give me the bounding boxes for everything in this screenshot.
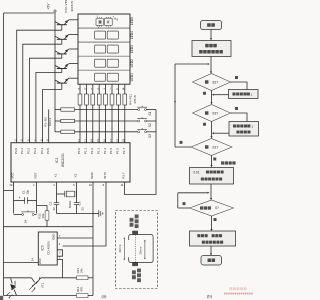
svg-text:10μ: 10μ (26, 190, 30, 195)
phototransistor VT1 (29, 277, 44, 292)
wire VCC feed pin14 (4, 258, 39, 263)
pin 2 P3.0 (14, 139, 18, 154)
resistor R8 (104, 94, 108, 105)
svg-text:S2: S2 (148, 123, 152, 127)
svg-text:P1.0: P1.0 (77, 148, 81, 155)
svg-text:22: 22 (81, 207, 85, 211)
IC U3 CD40106 body (38, 232, 57, 265)
flow yes label 2 (235, 107, 238, 110)
infrared diode VD1 (6, 278, 17, 299)
svg-text:15: 15 (96, 139, 100, 142)
svg-text:20mm: 20mm (139, 246, 143, 254)
svg-text:VCC: VCC (38, 258, 42, 264)
svg-text:P3.1: P3.1 (20, 148, 24, 155)
resistor R9 (110, 94, 114, 105)
7-segment digit pair LED5 (96, 15, 119, 29)
transistor VT6 9015 (55, 78, 78, 89)
wire X2 pin5 (76, 182, 78, 203)
flow arrow 1 (210, 30, 212, 41)
flow start measure label (221, 161, 224, 164)
resistor R2 (55, 119, 138, 122)
resistor R13 24k (76, 268, 93, 280)
flow yes label 4 (214, 218, 217, 221)
resistor R10 (117, 94, 121, 105)
flow arrow 3 (210, 91, 212, 105)
svg-text:X2: X2 (74, 173, 78, 177)
label IC3 CD40106 (41, 241, 51, 255)
transistor VT3 9015 (55, 34, 78, 44)
capacitor C3 22 (74, 201, 85, 213)
flow arrow 2 (210, 57, 212, 74)
flow timer enable box (190, 168, 234, 185)
svg-text:11: 11 (120, 183, 123, 187)
svg-text:22: 22 (52, 207, 56, 211)
wire R6 to P1.2 (92, 105, 94, 143)
capacitor C2 22 (49, 201, 60, 213)
svg-text:1: 1 (251, 92, 253, 96)
svg-text:18: 18 (115, 139, 119, 142)
pin 19 P1.7 (122, 139, 126, 154)
svg-text:IC1: IC1 (55, 157, 59, 162)
capacitor C1 10u (14, 190, 37, 204)
pin 8 P3.4 (40, 139, 44, 154)
wire R5 to P1.1 (85, 105, 87, 143)
flow zero loop join (178, 192, 210, 194)
pin 16 P1.4 (103, 139, 107, 154)
svg-text:GND: GND (52, 234, 56, 240)
wire segment c (92, 84, 94, 94)
flow no label 4 (183, 202, 186, 205)
svg-text:24k: 24k (80, 268, 84, 273)
flow arrow 4 (210, 122, 212, 139)
svg-text:P3.7: P3.7 (122, 172, 126, 179)
flow no label 2 (203, 123, 206, 126)
svg-text:P1.5: P1.5 (109, 148, 113, 155)
wire digit drive P3.2 to VT4 base (30, 58, 62, 143)
wire R10 to P1.6 (117, 105, 119, 143)
svg-text:INT0: INT0 (103, 172, 107, 179)
pin 4 X1 (53, 173, 58, 187)
label VT2~VT6 9015x5 (64, 0, 74, 13)
resistor R7 (97, 94, 101, 105)
svg-text:LED2: LED2 (130, 59, 134, 67)
svg-text:(b): (b) (207, 293, 213, 298)
svg-text:c: c (108, 27, 109, 29)
flow loop join top (175, 63, 210, 65)
switch S2 (137, 117, 156, 122)
wire digit drive P3.0 to VT2 base (17, 30, 62, 143)
7-segment digit pair LED1 (95, 73, 119, 81)
pin 6 P3.2 (26, 139, 30, 154)
svg-text:C2: C2 (49, 201, 53, 205)
transistor VT5 9015 (55, 64, 78, 73)
switch S3 (137, 128, 156, 133)
dimension 20mm (139, 240, 146, 260)
svg-text:LED4: LED4 (130, 31, 134, 39)
wire R7 to P1.3 (98, 105, 100, 143)
dimension 30mm (118, 237, 125, 260)
pin 18 P1.6 (115, 139, 119, 154)
resistor R14 470 (4, 278, 94, 298)
pin 7 P3.3 (33, 139, 37, 154)
wire INT0 pin6 to IC3 (63, 182, 107, 246)
svg-text:P1.7: P1.7 (122, 148, 126, 155)
transistor VT2 9015 (55, 20, 78, 30)
svg-text:LED5: LED5 (130, 17, 134, 25)
pin 17 P1.5 (109, 139, 113, 154)
svg-text:GND: GND (90, 171, 94, 179)
svg-text:20: 20 (9, 183, 13, 187)
transistor VT4 9015 (55, 49, 78, 58)
pin 1 RST (33, 172, 38, 187)
flow arrow 5 (210, 156, 212, 168)
label R1~R3 10kx3 (44, 117, 53, 127)
emitter element (132, 263, 138, 267)
svg-text:S2?: S2? (212, 80, 218, 84)
svg-text:470: 470 (80, 287, 84, 292)
svg-text:30mm: 30mm (118, 244, 122, 252)
svg-text:S3: S3 (148, 134, 152, 138)
flow branch plus box (229, 113, 259, 136)
wire pin7 to ground (57, 234, 93, 238)
wire +5V left vertical (3, 13, 5, 278)
svg-text:R1~R3: R1~R3 (44, 117, 48, 127)
wire ground rail lower (4, 226, 94, 228)
flow plus join (212, 132, 229, 134)
svg-text:X1: X1 (54, 173, 58, 177)
wire segment a (79, 84, 81, 94)
wire segment b (85, 84, 87, 94)
svg-text:16: 16 (103, 139, 107, 142)
svg-text:P3.5: P3.5 (46, 148, 50, 155)
wire phototransistor supply (4, 277, 77, 279)
wire switch common to P3.7 (125, 110, 157, 195)
svg-text:C3: C3 (77, 201, 81, 205)
wire R11 to P1.7 (124, 105, 126, 143)
flow start terminal (201, 21, 222, 30)
svg-text:89C2051: 89C2051 (61, 153, 65, 167)
svg-text:12: 12 (77, 139, 81, 142)
svg-text:P1.4: P1.4 (103, 148, 107, 155)
pin 11 P3.7 (120, 172, 125, 187)
flow yes label 1 (235, 76, 238, 79)
svg-text:0?: 0? (215, 206, 219, 210)
svg-text:IC3: IC3 (41, 245, 45, 250)
flow no loop left (174, 64, 191, 147)
svg-text:VT2~VT6: VT2~VT6 (64, 0, 68, 13)
svg-text:S4: S4 (24, 219, 28, 223)
wire R4 to P1.0 (79, 105, 81, 143)
flow end terminal (201, 256, 222, 266)
svg-text:LED3: LED3 (130, 45, 134, 53)
IC U1 89C2051 body (11, 143, 130, 182)
wire R9 to P1.5 (111, 105, 113, 143)
resistor R3 (55, 130, 138, 133)
pin 10 GND (89, 171, 94, 187)
svg-text:S1?: S1? (212, 145, 218, 149)
wire GND pin10 (92, 182, 93, 296)
wire segment g (117, 84, 119, 94)
sensor center line (134, 235, 136, 262)
svg-text:470×8: 470×8 (133, 95, 137, 104)
svg-text:13: 13 (83, 139, 87, 142)
svg-text:P1.6: P1.6 (116, 148, 120, 155)
flow decision S2 (193, 74, 231, 91)
wire segment dp (124, 84, 126, 94)
wire segment e (105, 84, 107, 94)
resistor R4 (78, 94, 82, 105)
svg-text:14: 14 (90, 139, 94, 142)
pin 15 P1.3 (96, 139, 100, 154)
switch S1 (137, 106, 156, 111)
wire X1 pin4 (56, 182, 58, 203)
7-segment digit pair LED2 (95, 59, 119, 67)
power +5V terminal (46, 3, 56, 12)
svg-text:9015×5: 9015×5 (70, 1, 74, 12)
flow decision count zero (190, 200, 234, 216)
flow arrow 8 (210, 246, 212, 255)
resistor R12 10k (37, 206, 49, 227)
svg-text:VT1: VT1 (41, 282, 45, 288)
resistor R1 (55, 108, 138, 111)
sensor channel (129, 235, 153, 263)
svg-text:P3.4: P3.4 (40, 148, 44, 155)
wire P3.5 pin (48, 110, 50, 143)
svg-text:10k×3: 10k×3 (48, 118, 52, 127)
flow decision S1 (191, 139, 232, 156)
pin 13 P1.1 (83, 139, 87, 154)
svg-text:P1.2: P1.2 (90, 148, 94, 155)
pin 12 P1.0 (77, 139, 81, 154)
scan artifact corner (0, 296, 3, 300)
svg-text:CD 40106: CD 40106 (47, 241, 51, 255)
wire segment f (111, 84, 113, 94)
pin 14 P1.2 (90, 139, 94, 154)
wire digit drive P3.3 to VT5 base (36, 73, 62, 143)
svg-text:10: 10 (89, 183, 93, 187)
flow stop box (190, 231, 236, 246)
svg-text:6MHz: 6MHz (68, 200, 72, 208)
switch S4 (14, 210, 37, 223)
flow arrow 6 (210, 184, 212, 200)
svg-text:S3?: S3? (212, 111, 218, 115)
resistor R11 (123, 94, 127, 105)
display block LED1-LED5 (78, 14, 130, 84)
svg-text:P3.0: P3.0 (14, 148, 18, 155)
pin 6 INT0 (103, 172, 108, 187)
svg-text:VD1: VD1 (13, 280, 17, 286)
watermark (224, 287, 253, 294)
flow no label 1 (203, 92, 206, 95)
7-segment digit pair LED3 (95, 45, 119, 53)
svg-text:S1: S1 (148, 112, 152, 116)
wire pin2 pin3 link (57, 250, 62, 256)
svg-text:(a): (a) (102, 293, 108, 298)
svg-text:19: 19 (122, 139, 126, 142)
wire VCC pin20 (4, 182, 14, 213)
wire pin1 input (57, 257, 62, 278)
receiver element (132, 231, 138, 235)
svg-text:RST: RST (34, 172, 38, 178)
wire segment d (98, 84, 100, 94)
svg-text:P1.1: P1.1 (84, 148, 88, 155)
wire R8 to P1.4 (105, 105, 107, 143)
wire digit drive P3.1 to VT3 base (23, 44, 62, 143)
wire +5V rail (4, 12, 56, 132)
pin 3 P3.1 (20, 139, 24, 154)
svg-text:1: 1 (251, 124, 253, 128)
label IC1 89C2051 (55, 153, 65, 167)
flow zero no loop (178, 193, 190, 208)
svg-text:P1.3: P1.3 (96, 148, 100, 155)
pin 5 X2 (73, 173, 78, 187)
crystal X 6MHz (57, 191, 77, 208)
label R4~R11 470x8 (129, 94, 137, 105)
label IR emitter tube (132, 268, 141, 282)
pin 9 P3.5 (46, 139, 50, 154)
svg-text:0.01: 0.01 (193, 170, 199, 174)
flow no label 3 (180, 141, 183, 144)
ground symbol (93, 210, 103, 217)
svg-text:17: 17 (109, 139, 113, 142)
flow arrow 7 (210, 216, 212, 231)
flow yes label 3 (213, 158, 216, 161)
flow branch minus box (229, 82, 259, 99)
svg-text:P3.3: P3.3 (33, 148, 37, 155)
resistor R6 (91, 94, 95, 105)
svg-text:14: 14 (30, 258, 34, 262)
flow decision S3 (193, 105, 231, 122)
svg-text:VCC: VCC (11, 172, 15, 179)
svg-text:LED1: LED1 (130, 73, 134, 81)
resistor R5 (85, 94, 89, 105)
svg-text:P3.2: P3.2 (27, 148, 31, 155)
wire digit drive P3.4 to VT6 base (43, 90, 62, 143)
svg-text:+: + (19, 196, 21, 200)
wire RST pin1 (36, 182, 38, 213)
7-segment digit pair LED4 (95, 31, 119, 39)
pin 20 VCC (9, 172, 14, 188)
svg-text:+5V: +5V (46, 3, 50, 10)
label IR receiver tube (130, 214, 139, 228)
IR sensor assembly dashed box (116, 211, 158, 289)
wire ground rail crystal (57, 213, 94, 215)
flow minus join (212, 94, 229, 96)
flow init box (192, 41, 231, 57)
svg-text:10k: 10k (41, 213, 45, 218)
